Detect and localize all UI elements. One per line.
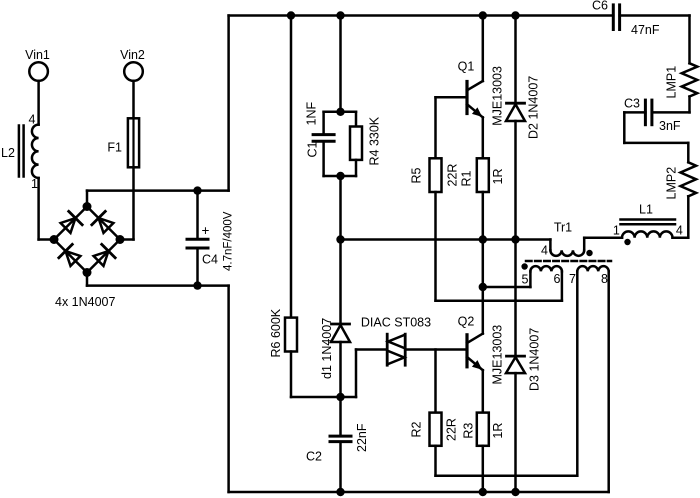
svg-text:LMP2: LMP2 — [665, 167, 679, 200]
wire R1 to mid rail — [482, 192, 485, 240]
svg-text:Q1: Q1 — [458, 60, 475, 74]
node Q2 collector / Tr1 pin5 — [479, 283, 487, 291]
wire Tr1 pin8 to bottom rail — [607, 271, 610, 492]
resistor R5 22R — [410, 158, 460, 192]
svg-text:Tr1: Tr1 — [554, 221, 572, 235]
node C2 top — [336, 393, 344, 401]
diode D2 1N4007 — [506, 76, 541, 139]
svg-text:C6: C6 — [592, 0, 608, 13]
resistor R6 600K — [269, 308, 297, 357]
svg-text:C3: C3 — [624, 97, 640, 111]
wire Q1 collector to top rail — [482, 16, 485, 82]
wire top rail to D2 — [514, 16, 517, 104]
svg-text:4x 1N4007: 4x 1N4007 — [55, 295, 116, 309]
lamp filament LMP2 — [665, 162, 697, 199]
bridge diode top-right (1N4007) — [92, 211, 114, 233]
wire DIAC to Q2 base — [405, 348, 467, 351]
bridge edge top-left — [54, 207, 87, 240]
resistor R3 1R — [462, 413, 506, 446]
svg-text:R2: R2 — [410, 421, 424, 437]
Tr1 secondary 5-6 — [522, 266, 562, 286]
wire D2 to mid rail — [514, 121, 517, 240]
wire R3 to bottom rail — [482, 446, 485, 492]
svg-text:1NF: 1NF — [305, 102, 319, 126]
wire Tr1 to L1 — [584, 236, 622, 239]
svg-text:22R: 22R — [446, 164, 460, 187]
Tr1 core — [526, 260, 611, 263]
svg-text:4: 4 — [541, 244, 548, 258]
svg-text:22R: 22R — [445, 418, 459, 441]
bridge label — [55, 295, 116, 309]
wire top rail to R6 — [290, 16, 293, 318]
node bottom rail C2 — [336, 488, 344, 496]
wire C2 node to DIAC — [341, 350, 388, 398]
wire C1R4 to mid rail — [339, 176, 342, 240]
node top rail Q1 — [479, 11, 487, 19]
wire R2 to Tr1 pin7 — [436, 446, 578, 476]
node bottom rail R3 — [479, 488, 487, 496]
bridge diode bottom-right (1N4007) — [94, 244, 116, 266]
node mid rail d1 — [336, 235, 344, 243]
wire Q2 emitter to R3 — [482, 370, 485, 412]
svg-text:LMP1: LMP1 — [665, 66, 679, 99]
svg-text:R6 600K: R6 600K — [269, 308, 283, 357]
wire Q1 base — [436, 96, 468, 99]
wire top rail — [229, 14, 614, 17]
svg-text:22nF: 22nF — [355, 423, 369, 452]
node C1R4 top — [336, 108, 344, 116]
wire R5 to Tr1 pin6 — [436, 192, 562, 301]
svg-text:+: + — [202, 223, 210, 238]
svg-text:C1: C1 — [306, 141, 320, 157]
node top rail R6 — [287, 11, 295, 19]
svg-text:L2: L2 — [1, 146, 15, 160]
node C4 top — [193, 186, 201, 194]
bridge diode top-left (1N4007) — [61, 211, 83, 233]
Tr1 polarity dot primary — [586, 250, 592, 256]
svg-text:DIAC ST083: DIAC ST083 — [361, 316, 431, 330]
svg-text:1: 1 — [31, 177, 38, 191]
node mid rail R1 — [479, 235, 487, 243]
svg-text:R5: R5 — [410, 167, 424, 183]
transistor Q2 MJE13003 — [458, 315, 505, 385]
wire LMP2 to C3 — [624, 112, 688, 162]
diode d1 1N4007 — [320, 318, 350, 379]
svg-text:47nF: 47nF — [631, 23, 660, 37]
wire Q1 emitter to R1 — [482, 117, 485, 158]
svg-text:8: 8 — [601, 272, 608, 286]
node bridge right — [116, 235, 125, 244]
svg-text:5: 5 — [522, 273, 529, 287]
wire mid rail to D3 — [514, 240, 517, 357]
wire F1 to bridge right node — [120, 167, 134, 239]
capacitor C4 4.7nF/400V — [187, 191, 235, 286]
bridge edge bottom-left — [54, 240, 87, 273]
wire LMP1 to C6 — [620, 16, 690, 64]
wire C3 to LMP1 — [652, 97, 690, 113]
bridge edge top-right — [87, 207, 120, 240]
wire bridge+ to DC rail — [87, 16, 229, 207]
node bridge left — [50, 235, 59, 244]
Tr1 secondary 7-8 — [569, 266, 609, 286]
wire C1R4 bottom bar — [324, 175, 356, 178]
svg-text:R1: R1 — [460, 170, 474, 186]
node bottom rail D3 — [511, 488, 519, 496]
terminal Vin2 — [120, 48, 145, 81]
wire L1 to LMP2 — [673, 196, 689, 237]
lamp filament LMP1 — [665, 63, 698, 98]
diode D3 1N4007 — [506, 328, 542, 391]
svg-text:7: 7 — [569, 272, 576, 286]
svg-text:C4: C4 — [202, 253, 218, 267]
svg-text:F1: F1 — [107, 140, 122, 154]
svg-text:R3: R3 — [462, 423, 476, 439]
terminal Vin1 — [25, 48, 50, 81]
svg-text:Vin2: Vin2 — [120, 48, 145, 62]
svg-text:Vin1: Vin1 — [25, 48, 50, 62]
wire mid rail — [341, 238, 551, 241]
svg-text:4: 4 — [676, 224, 683, 238]
DIAC ST083 — [361, 316, 431, 366]
svg-text:Q2: Q2 — [458, 315, 475, 329]
svg-text:R4 330K: R4 330K — [368, 116, 382, 165]
resistor R2 22R — [410, 413, 459, 446]
capacitor C2 22nF — [306, 397, 369, 492]
wire bridge- return — [87, 273, 229, 493]
wire D3 to bottom rail — [514, 373, 517, 492]
wire Q1 base to R5 — [434, 97, 437, 158]
wire bottom rail — [229, 491, 609, 494]
svg-text:6: 6 — [554, 272, 561, 286]
wire top rail to C1R4 — [339, 16, 342, 112]
node C4 bottom — [193, 281, 201, 289]
fuse F1 — [107, 118, 139, 167]
svg-text:L1: L1 — [639, 203, 653, 217]
capacitor C3 3nF — [624, 97, 681, 134]
wire Tr1 pin7 down — [576, 271, 579, 475]
wire node down to Q2 — [482, 287, 485, 334]
svg-text:C2: C2 — [306, 450, 322, 464]
svg-text:4.7nF/400V: 4.7nF/400V — [223, 211, 235, 271]
inductor L2 — [1, 113, 39, 192]
svg-text:1R: 1R — [491, 423, 505, 439]
wire mid rail to Q2 collector node — [482, 240, 485, 288]
wire Vin1 to L2 — [37, 81, 40, 125]
svg-text:D3 1N4007: D3 1N4007 — [528, 328, 542, 391]
bridge edge bottom-right — [87, 240, 120, 273]
node bridge top — [83, 202, 92, 211]
wire mid rail to d1 — [339, 240, 342, 325]
node top rail C1R4 — [336, 11, 344, 19]
bridge diode bottom-left (1N4007) — [59, 244, 81, 266]
svg-text:MJE13003: MJE13003 — [491, 66, 505, 126]
capacitor C1 1NF — [305, 102, 335, 176]
wire C1R4 top bar — [324, 111, 356, 114]
svg-text:3nF: 3nF — [659, 119, 681, 133]
svg-text:4: 4 — [29, 113, 36, 127]
node top rail D2 — [511, 11, 519, 19]
resistor R4 330K — [350, 112, 382, 176]
wire Q2 base to R2 — [434, 350, 437, 413]
node bridge bottom — [83, 268, 92, 277]
svg-text:1R: 1R — [491, 169, 505, 185]
wire R6 to C2 node — [291, 352, 341, 398]
capacitor C6 47nF — [592, 0, 660, 37]
L1 polarity dot — [624, 239, 630, 245]
wire node to Tr1 pin5 — [483, 271, 531, 287]
wire L2 to bridge left node — [39, 178, 54, 240]
transistor Q1 MJE13003 — [458, 60, 505, 126]
svg-text:1: 1 — [613, 224, 620, 238]
Tr1 primary 4 — [541, 221, 584, 258]
Tr1 polarity dot 5 — [521, 263, 527, 269]
inductor L1 — [613, 203, 683, 238]
svg-text:MJE13003: MJE13003 — [491, 325, 505, 385]
svg-text:D2 1N4007: D2 1N4007 — [527, 76, 541, 139]
wire d1 to C2 node — [339, 342, 342, 397]
svg-text:d1 1N4007: d1 1N4007 — [320, 318, 334, 379]
wire Vin2 to fuse — [132, 81, 135, 119]
node mid rail D2 — [511, 235, 519, 243]
resistor R1 1R — [460, 158, 506, 192]
node C1R4 bottom — [336, 172, 344, 180]
